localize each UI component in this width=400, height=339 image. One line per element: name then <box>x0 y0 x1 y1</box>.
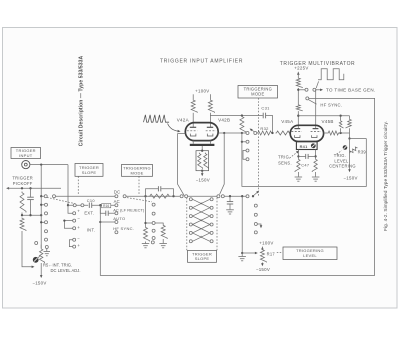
resistor multivib plate upper <box>296 78 302 89</box>
contact mode col c <box>152 222 155 225</box>
wire inner loop <box>242 133 366 186</box>
svg-text:V45A: V45A <box>281 119 293 124</box>
svg-text:V45B: V45B <box>321 119 333 124</box>
switch contact 2b <box>123 195 126 198</box>
svg-text:TRIG.: TRIG. <box>334 153 346 158</box>
bracket mode2 <box>243 151 246 160</box>
wire cathode down a <box>297 150 299 159</box>
resistor plate V42A <box>191 99 197 113</box>
node divider tap <box>21 214 23 216</box>
label box TRIGGER INPUT <box>11 148 41 159</box>
svg-text:+: + <box>200 218 203 223</box>
linkage dash slope box <box>77 176 79 195</box>
label V42B <box>218 117 230 122</box>
stub contact a <box>41 204 44 206</box>
resistor V45A grid stopper <box>276 131 291 135</box>
wire to dc level pot <box>22 231 33 267</box>
wire down ext branch <box>67 165 69 206</box>
svg-text:R5←INT. TRIG.: R5←INT. TRIG. <box>43 263 72 268</box>
node tap at bus <box>40 214 42 216</box>
cathode resistor box <box>196 151 209 171</box>
svg-text:+: + <box>77 225 80 230</box>
contact above R5 <box>35 242 38 245</box>
label -150V cathode <box>196 178 210 183</box>
svg-text:HF SYNC.: HF SYNC. <box>320 103 342 108</box>
label box TRIGGER SLOPE 2 <box>188 250 217 262</box>
node row elbow <box>348 137 350 139</box>
svg-text:INT.: INT. <box>87 228 95 233</box>
svg-text:AC: AC <box>114 199 120 204</box>
slope lattice contacts <box>189 198 213 243</box>
label -150V right <box>343 176 357 181</box>
wiper dashes slope switch <box>47 197 75 203</box>
contact AC <box>115 204 118 207</box>
capacitor bus bypass loop <box>146 186 174 196</box>
node out plate <box>339 132 341 134</box>
tube V42 cathode bar <box>190 144 215 146</box>
node pickoff A <box>21 187 23 189</box>
label TRIG LEVEL CENTERING <box>329 153 356 169</box>
resistor rail drop small <box>339 116 343 133</box>
label AC <box>114 199 120 204</box>
switch gap 4 on main bus <box>217 195 225 198</box>
switch contact 4b <box>221 195 224 198</box>
wire plate supply V42A <box>192 94 194 99</box>
svg-text:R39: R39 <box>358 149 367 154</box>
pot R5 knob <box>33 257 39 263</box>
wire C31 to grid node <box>266 116 273 134</box>
svg-text:SENS.: SENS. <box>278 161 292 166</box>
tube envelope V42 <box>185 123 218 141</box>
svg-text:+100V: +100V <box>195 89 209 94</box>
resistor multivib plate lower <box>296 104 302 111</box>
wire coupling from V42B plate <box>210 115 262 117</box>
node switch left <box>297 89 299 91</box>
resistor R32 <box>257 131 273 135</box>
capacitor C47 <box>298 154 315 159</box>
ground A <box>142 244 149 248</box>
label plus low <box>77 243 80 248</box>
arrowhead level wiper <box>255 252 258 255</box>
wire R to switch node <box>297 88 299 104</box>
wire Rk a ground <box>297 172 299 177</box>
bracket ext <box>68 205 73 213</box>
wire R5 top <box>40 245 42 248</box>
wire V42A grid <box>178 134 186 196</box>
pointer HF SYNC <box>309 100 317 104</box>
slope lattice cross wires <box>193 199 210 241</box>
contact HF SYNC right <box>306 97 309 100</box>
contact low pair a <box>73 238 76 241</box>
label V42A <box>177 117 189 122</box>
wire bus to R down <box>145 196 147 226</box>
contact mode col e <box>152 237 155 240</box>
wire plate supply V42B <box>209 94 211 99</box>
stub contact b <box>41 221 44 223</box>
wire cathode down b <box>315 150 317 159</box>
svg-text:Circuit Description — Type 533: Circuit Description — Type 533/533A <box>79 56 85 147</box>
node trig level ground <box>241 252 243 254</box>
svg-text:+100V: +100V <box>259 241 273 246</box>
wiper arrow level col <box>257 224 262 228</box>
node auto row <box>99 221 101 223</box>
svg-text:−150V: −150V <box>196 178 210 183</box>
svg-text:TRIGGER MULTIVIBRATOR: TRIGGER MULTIVIBRATOR <box>280 61 355 67</box>
svg-text:LEVEL: LEVEL <box>303 253 317 258</box>
label box TRIGGERING MODE 1 <box>122 165 153 177</box>
svg-text:V42B: V42B <box>218 117 230 122</box>
wire plate lead V42A <box>192 113 194 128</box>
svg-text:AC (LF REJECT): AC (LF REJECT) <box>113 208 145 213</box>
node R31 bottom <box>241 132 243 134</box>
tube V45 grids <box>291 131 321 133</box>
wire V42B grid right <box>218 132 246 134</box>
wire Rk b ground <box>315 172 317 177</box>
switch contact 3b <box>185 195 188 198</box>
tube V45 cathodes <box>295 135 317 137</box>
wire ext row <box>68 204 88 206</box>
label HF SYNC right <box>320 103 342 108</box>
contact HF SYNC left <box>115 231 118 234</box>
label TO TIME BASE GEN <box>326 88 376 93</box>
switch contact 3a <box>180 195 183 198</box>
wire C10 to AC contact <box>92 204 115 206</box>
resistor plate V42B <box>208 99 214 113</box>
label AC LF REJECT <box>113 208 145 213</box>
contact mode2 col a <box>246 140 249 143</box>
resistor to ground B <box>161 225 167 239</box>
node cathode top <box>201 150 203 152</box>
wiper arm level switch <box>254 191 259 196</box>
wire elbow to loop <box>350 138 367 140</box>
label DC LEVEL ADJ <box>51 268 81 273</box>
linkage dash level <box>277 252 282 254</box>
wire plate rail <box>298 115 349 117</box>
arrow down -150V <box>261 263 264 266</box>
wire cathode to Rk box <box>201 146 203 151</box>
wiper arrow mode2 <box>250 129 255 133</box>
arrow trig sens <box>290 151 300 159</box>
square wave symbol <box>318 69 344 80</box>
arrow trigger pickoff input <box>6 187 9 190</box>
wire R39 column <box>349 139 351 171</box>
svg-text:TO TIME BASE GEN.: TO TIME BASE GEN. <box>326 88 376 93</box>
node bus far end <box>252 195 254 197</box>
contact int a <box>73 219 76 222</box>
svg-text:DC: DC <box>114 189 121 194</box>
svg-text:C10: C10 <box>87 198 96 203</box>
wire R to ground A <box>145 242 147 244</box>
contact int b <box>73 227 76 230</box>
label +100V level <box>259 241 273 246</box>
svg-text:EXT.: EXT. <box>84 210 94 215</box>
svg-text:LEVEL: LEVEL <box>334 158 349 163</box>
contact mode col d <box>152 229 155 232</box>
resistor cathode V45a <box>295 159 300 172</box>
ground cathode b <box>312 177 320 181</box>
pot R41 knob <box>311 143 316 148</box>
capacitor pickoff <box>27 188 34 215</box>
svg-text:R32: R32 <box>260 126 269 131</box>
node cap bottom <box>29 214 31 216</box>
contact column left <box>45 203 48 241</box>
contact ext pair a <box>73 204 76 207</box>
svg-text:R41: R41 <box>300 144 309 149</box>
resistor R31 <box>240 116 246 134</box>
node after C10 <box>99 204 101 206</box>
arrowhead output <box>320 89 323 92</box>
node cathode a <box>297 155 299 157</box>
label box TRIGGER SLOPE 1 <box>75 164 103 177</box>
wire rail drop to row <box>349 130 351 139</box>
label C47 <box>301 163 309 168</box>
wire mode col to R B <box>155 223 163 225</box>
wire plate lead V42B <box>209 113 211 128</box>
svg-text:TRIGGER INPUT AMPLIFIER: TRIGGER INPUT AMPLIFIER <box>160 59 243 65</box>
svg-text:INPUT: INPUT <box>19 153 33 158</box>
svg-text:+225V: +225V <box>294 65 308 70</box>
resistor cathode V45b <box>312 159 317 172</box>
switch contact out b <box>313 88 316 91</box>
heading TRIGGER INPUT AMPLIFIER <box>160 59 243 65</box>
linkage dash lattice right <box>216 198 218 251</box>
capacitor C10 <box>89 203 91 208</box>
wire cathode bar leads <box>193 141 210 144</box>
wire auto row <box>100 221 114 223</box>
heading TRIGGER MULTIVIBRATOR <box>280 61 355 67</box>
wire cap to contact <box>109 212 115 214</box>
wire R to ground B <box>162 239 164 243</box>
resistor to ground A <box>144 227 150 242</box>
node main bus left <box>40 195 42 197</box>
ground B <box>159 244 167 248</box>
potentiometer R5 body <box>40 248 45 263</box>
contact AC LF REJECT <box>115 212 118 215</box>
resistor R39 <box>349 146 359 154</box>
bracket int <box>64 221 72 229</box>
wire output node run <box>339 132 349 134</box>
linkage dash mode box <box>138 176 140 195</box>
svg-text:−150V: −150V <box>343 176 357 181</box>
svg-text:HF SYNC.: HF SYNC. <box>113 226 134 231</box>
wire cap to ground <box>229 204 231 209</box>
label TRIGGER PICKOFF <box>12 176 33 186</box>
pointer square wave <box>316 81 318 88</box>
label R17 <box>267 251 276 256</box>
tube V42 grids <box>187 130 216 132</box>
wiper dashes mode switch <box>127 198 152 202</box>
svg-text:MODE: MODE <box>131 170 144 175</box>
tube V42 plate bars <box>190 126 213 128</box>
switch contact 4a <box>217 195 220 198</box>
svg-text:−: − <box>200 209 203 214</box>
svg-text:+: + <box>200 235 203 240</box>
label R39 <box>358 149 367 154</box>
wire down from trigger input node <box>40 165 42 197</box>
switch contact 1a <box>44 195 47 198</box>
linkage dash lattice left <box>186 198 188 251</box>
svg-text:C31: C31 <box>261 106 270 111</box>
arrow +225V <box>297 72 300 75</box>
label R32 <box>260 126 269 131</box>
label INT <box>87 228 95 233</box>
label plus ext <box>77 209 80 214</box>
svg-text:−150V: −150V <box>32 281 46 286</box>
switch gap 3 on main bus <box>180 195 188 198</box>
label AUTO <box>113 216 125 221</box>
capacitor LF reject <box>106 211 108 216</box>
label V45B <box>321 119 333 124</box>
wire LF reject branch <box>100 205 105 213</box>
wire output arrow <box>315 89 321 91</box>
switch gap 2 on main bus <box>115 195 127 198</box>
node mode2 col a <box>241 141 243 143</box>
node cap branch <box>229 195 231 197</box>
connector J1 trigger input <box>22 161 30 169</box>
svg-text:−150V: −150V <box>256 267 270 272</box>
contact mode col b <box>152 212 155 215</box>
wire V42B junction down <box>220 133 225 194</box>
contact between grounds <box>151 241 154 244</box>
node RC left <box>144 195 146 197</box>
node plate rail A <box>297 115 299 117</box>
node V42B grid junction <box>223 132 225 134</box>
svg-text:R16: R16 <box>103 204 109 208</box>
resistor rail drop big <box>346 116 351 130</box>
label +225V <box>294 65 308 70</box>
label plus int <box>77 225 80 230</box>
stub mode col <box>146 222 153 224</box>
switch contact 2a <box>115 195 118 198</box>
label minus int <box>77 216 80 221</box>
node RC right <box>172 195 174 197</box>
svg-text:DC LEVEL ADJ.: DC LEVEL ADJ. <box>51 268 81 273</box>
svg-text:SLOPE: SLOPE <box>82 170 97 175</box>
label DC <box>114 189 121 194</box>
arrow -150V right <box>348 169 351 172</box>
wire slope column <box>40 196 42 248</box>
wire trigger pickoff <box>7 187 61 189</box>
wire cap branch <box>229 196 231 201</box>
node cathode bottom <box>201 170 203 172</box>
svg-text:PICKOFF: PICKOFF <box>13 181 33 186</box>
contact level col b <box>254 213 257 216</box>
svg-text:+: + <box>77 209 80 214</box>
contact bus right end <box>246 195 249 198</box>
contact level col d <box>254 231 257 234</box>
svg-text:MODE: MODE <box>251 92 264 97</box>
label box TRIGGERING LEVEL <box>283 247 337 260</box>
wire plate lead V45A <box>297 111 299 128</box>
node cathode b <box>314 155 316 157</box>
wire switch to V45B plate <box>315 90 317 129</box>
wire grounded contact <box>46 249 48 252</box>
resistor V45B output <box>328 131 340 135</box>
wire trig level branch <box>241 196 243 253</box>
trigger waveform spikes <box>144 115 170 122</box>
ground bus cap <box>226 210 234 214</box>
node C31 junction <box>271 132 273 134</box>
resistor cathode Rk1 <box>198 153 203 169</box>
right margin figure caption <box>383 121 388 231</box>
node plate rail B <box>339 115 341 117</box>
switch gap 1 on main bus <box>44 195 56 198</box>
capacitor bus to ground <box>227 202 233 204</box>
wire V45 cathode leads <box>298 141 315 143</box>
node coupling R31 <box>241 114 243 116</box>
potentiometer R17 <box>260 249 266 263</box>
ground trig level <box>238 257 246 261</box>
arrow spikes to grid <box>168 124 181 133</box>
label +100V left <box>195 89 209 94</box>
label EXT <box>84 210 94 215</box>
label box TRIGGERING MODE 2 <box>238 86 278 99</box>
wire R5 bottom <box>40 263 42 276</box>
wire HF sync loop <box>100 98 374 275</box>
node stub a <box>40 204 42 206</box>
label V45A <box>281 119 293 124</box>
wire V45B plate out <box>324 132 328 134</box>
tube V45 plate bars <box>294 128 318 130</box>
stub mode2 col a <box>242 141 246 143</box>
label -150V level <box>256 267 270 272</box>
label -150V R5 <box>32 281 46 286</box>
wire level wiper <box>242 252 256 254</box>
label R41 <box>300 144 309 149</box>
contact mode2 col b <box>246 149 249 152</box>
bracket low pair <box>69 240 72 247</box>
grounded contact <box>45 246 48 249</box>
wire divider tap <box>22 213 41 216</box>
wire switch left <box>298 89 305 91</box>
svg-text:R17: R17 <box>267 251 276 256</box>
svg-text:AUTO: AUTO <box>113 216 125 221</box>
contact low pair b <box>73 245 76 248</box>
contact AUTO <box>115 221 118 224</box>
node pickoff B <box>29 187 31 189</box>
label box R16 <box>102 204 111 208</box>
node at trigger input wire <box>40 163 42 165</box>
label C10 <box>87 198 96 203</box>
switch contact mode2 a <box>246 132 249 135</box>
label R5 INT TRIG <box>43 263 72 268</box>
contact ext2 <box>73 212 76 215</box>
slope lattice polarity signs <box>200 201 203 240</box>
arrowhead to R5 wiper <box>32 266 35 269</box>
tube V42 cathodes <box>190 134 213 136</box>
svg-text:+: + <box>200 201 203 206</box>
wire R17 down <box>261 263 263 265</box>
svg-text:SLOPE: SLOPE <box>195 256 210 261</box>
left margin caption <box>79 56 85 147</box>
node stub b <box>40 221 42 223</box>
label HF SYNC left <box>113 226 134 231</box>
node bracket int <box>63 219 65 221</box>
linkage dash mode 2 <box>257 98 259 196</box>
pot R5 wiper <box>38 256 40 258</box>
node ext row <box>67 204 69 206</box>
arrow up +100V <box>261 247 264 250</box>
label TRIG SENS <box>278 155 292 166</box>
label C31 <box>261 106 270 111</box>
arrow cathode supply <box>201 173 204 176</box>
contact level col c <box>254 223 257 226</box>
contact mode2 col c <box>246 158 249 161</box>
resistor divider upper <box>20 192 26 213</box>
ground at slope switch <box>44 252 51 256</box>
wire main trigger bus <box>41 195 247 197</box>
node mode col <box>144 222 146 224</box>
